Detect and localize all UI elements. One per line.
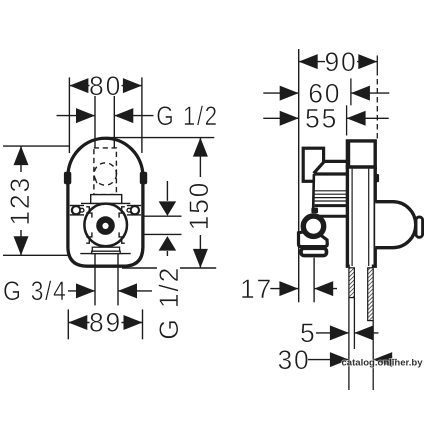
svg-text:55: 55 (305, 104, 338, 134)
clamp tab right (140, 172, 147, 184)
side port pointer arrows (159, 201, 177, 216)
corner mark bottom-left (86, 232, 92, 243)
dim G3/4 arrows (76, 283, 95, 298)
dim 123 text (9, 172, 30, 230)
body left edge (312, 174, 315, 213)
handle dome (375, 202, 416, 248)
flange bottom line (80, 253, 130, 255)
body step line lower (319, 215, 347, 218)
svg-text:30: 30 (277, 345, 310, 375)
body step line upper (315, 204, 347, 207)
left ear screw (72, 206, 80, 214)
label G1/2 side (rotated) (157, 267, 180, 340)
svg-text:5: 5 (300, 318, 317, 348)
tick inside cartridge (95, 178, 97, 184)
corner mark top-left (86, 207, 92, 218)
dim 80 text (90, 75, 122, 96)
dim G3/4 leader (68, 290, 95, 292)
bottom cap (301, 248, 327, 255)
dim 90 right extension (dashed) (376, 56, 378, 71)
bottom port line right (117, 254, 119, 306)
dim 89 extension lines (67, 309, 69, 339)
dim 123 extension lines (3, 145, 69, 147)
cartridge dashed circle (94, 163, 116, 185)
dim 60 extension stub (350, 78, 352, 105)
function block circle (84, 204, 127, 247)
svg-text:150: 150 (184, 181, 214, 231)
dim 90 arrows (299, 54, 318, 69)
body centerline (313, 258, 315, 303)
dim 90 line (299, 61, 378, 63)
plate side tab (375, 174, 379, 182)
thread lines (313, 190, 346, 192)
wire: oval bottom tangent extension line (122, 267, 216, 269)
valve housing oval (stadium) (68, 138, 143, 266)
dim 60 left leader (263, 92, 298, 94)
right ear ticks (127, 205, 141, 207)
flange top line (81, 202, 130, 204)
clamp tab left (64, 172, 71, 184)
top port line left (94, 96, 96, 148)
svg-text:catalog.onliner.by: catalog.onliner.by (342, 357, 424, 368)
dome cap capsule (416, 217, 423, 237)
dim 80 arrows (69, 78, 88, 93)
dim 90 text (325, 51, 357, 72)
foot rect A (92, 247, 119, 251)
bottom bracket (299, 230, 328, 247)
side port edge line lower (144, 233, 182, 235)
svg-text:17: 17 (240, 274, 273, 304)
dim 55 left leader (263, 117, 298, 119)
svg-text:G 1/2: G 1/2 (156, 101, 219, 131)
bottom port line left (94, 254, 96, 306)
dim 89 line (68, 322, 142, 324)
right pipe walls (372, 321, 374, 390)
plate inner bar (346, 165, 377, 168)
dim 55 extension stub (346, 105, 348, 135)
dim 17 right leader (314, 288, 337, 290)
dim 80 extension lines (68, 77, 70, 153)
dim 80 line (69, 85, 141, 87)
wire: oval top tangent extension line (106, 137, 215, 139)
body chamfer (314, 162, 325, 174)
cartridge base (91, 195, 122, 204)
side port pointer line (166, 181, 168, 201)
dim 123 arrows (14, 146, 29, 165)
dim 30 leader (307, 359, 349, 361)
mounting plate (347, 141, 375, 266)
dim 17 left leader (270, 288, 298, 290)
spindle donut (96, 216, 115, 235)
left pipe walls (348, 298, 350, 390)
svg-text:80: 80 (89, 71, 122, 101)
foot rect B (92, 251, 121, 253)
dim 89 text (90, 312, 122, 333)
svg-text:89: 89 (89, 308, 122, 338)
right pipe hatched section (368, 268, 374, 321)
svg-text:90: 90 (324, 47, 357, 77)
svg-text:G 1/2: G 1/2 (154, 266, 184, 340)
body front edge (314, 172, 347, 175)
right ear screw (131, 206, 139, 214)
dim 55 right leader (347, 117, 389, 119)
body bump (311, 208, 318, 214)
top port line right (113, 96, 115, 148)
wall line (298, 49, 300, 302)
dim 150 line (199, 138, 201, 268)
body top edge (324, 160, 347, 163)
corner mark bottom-right (119, 232, 125, 243)
supply elbow ring (303, 216, 323, 236)
left pipe hatched section (349, 268, 355, 298)
corner mark top-right (119, 207, 125, 218)
pipe lines inside plate (351, 169, 353, 266)
side port edge line upper (144, 215, 182, 217)
dim 150 arrows (193, 138, 208, 157)
dim 150 text (189, 177, 210, 235)
dim 89 arrows (68, 315, 87, 330)
body white cover (315, 162, 347, 191)
dim G1/2 top leader (57, 115, 96, 117)
rear bracket (303, 148, 323, 181)
left ear ticks (70, 205, 84, 207)
svg-text:123: 123 (5, 176, 35, 226)
dim 5 leader (316, 332, 349, 334)
dim G1/2 top arrows (76, 108, 95, 123)
dim 123 line (20, 146, 22, 255)
cartridge dashed outline (94, 148, 117, 195)
plate inner box left edge (349, 143, 351, 168)
dim 60 right leader (351, 92, 389, 94)
svg-text:G 3/4: G 3/4 (3, 276, 68, 306)
